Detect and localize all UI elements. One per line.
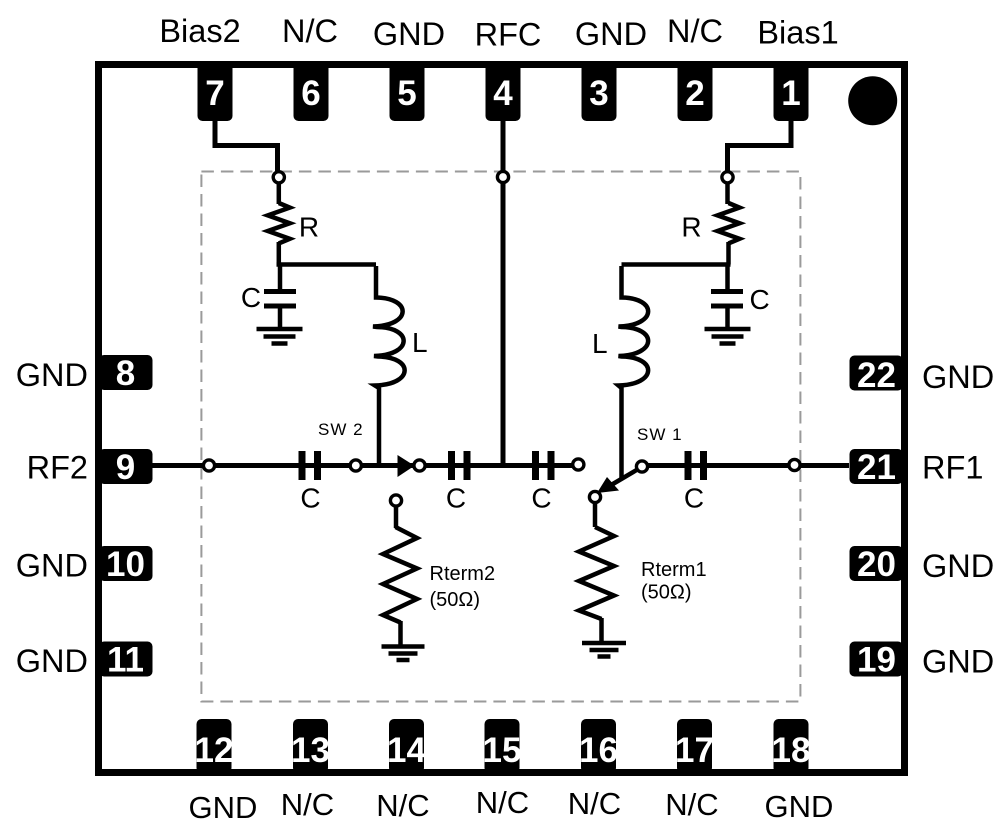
svg-text:15: 15 — [483, 731, 522, 770]
svg-text:C: C — [750, 284, 770, 315]
svg-text:Rterm1: Rterm1 — [641, 559, 707, 581]
RF line segment SW1 pivot to pin21 — [642, 463, 849, 468]
svg-text:Bias1: Bias1 — [757, 15, 838, 51]
node SW2 contact — [414, 460, 425, 471]
resistor Rterm1 — [579, 527, 614, 619]
svg-text:6: 6 — [301, 74, 320, 113]
wire junction to capacitor (right bias) — [725, 265, 730, 291]
svg-text:R: R — [681, 212, 701, 243]
pin 12 — [195, 719, 234, 773]
svg-text:L: L — [592, 328, 608, 359]
wire R to junction and to inductor (left) — [277, 242, 377, 265]
svg-text:C: C — [531, 483, 551, 514]
inductor L (right) — [619, 266, 649, 478]
ground (left bias) — [257, 329, 303, 344]
wire node to Rterm2 — [394, 506, 399, 528]
pin 18 — [772, 719, 811, 773]
wire pin1 to bias1 node — [728, 121, 792, 171]
pin 17 — [675, 719, 714, 773]
svg-text:Bias2: Bias2 — [159, 13, 240, 49]
pin 6 — [294, 63, 329, 121]
wire bias2 node to resistor — [277, 182, 282, 204]
wire capacitor to ground (right bias) — [725, 306, 730, 327]
pin 2 — [678, 63, 713, 121]
svg-text:10: 10 — [106, 545, 145, 584]
wire node to Rterm1 — [593, 503, 598, 527]
svg-text:RF2: RF2 — [27, 450, 88, 486]
svg-text:22: 22 — [857, 356, 896, 395]
SW1 arm — [612, 468, 640, 485]
node Rterm1 top — [589, 491, 600, 502]
svg-text:3: 3 — [589, 74, 608, 113]
svg-text:N/C: N/C — [665, 787, 718, 822]
svg-text:GND: GND — [189, 790, 258, 825]
svg-text:SW 1: SW 1 — [637, 425, 683, 444]
pin 20 — [850, 545, 904, 584]
svg-text:N/C: N/C — [476, 785, 529, 820]
svg-text:N/C: N/C — [281, 787, 334, 822]
node SW1 pivot — [636, 461, 647, 472]
wire Rterm1 to ground — [599, 618, 604, 641]
wire pin7 to bias2 node — [215, 121, 278, 171]
pin 3 — [582, 63, 617, 121]
svg-text:14: 14 — [387, 731, 426, 770]
pin 21 — [850, 448, 904, 487]
node RFC — [497, 171, 508, 182]
svg-text:GND: GND — [16, 643, 88, 679]
capacitor C2 — [452, 451, 468, 480]
svg-text:C: C — [241, 282, 261, 313]
wire R to junction and to inductor (right) — [622, 242, 731, 265]
ground (right bias) — [705, 329, 751, 344]
capacitor C3 — [536, 451, 552, 480]
svg-text:(50Ω): (50Ω) — [430, 589, 481, 611]
node SW1 open contact — [573, 459, 584, 470]
ground Rterm1 — [582, 643, 626, 657]
node bias1 — [722, 172, 733, 183]
pin 5 — [390, 63, 425, 121]
svg-text:GND: GND — [765, 789, 834, 824]
svg-text:4: 4 — [493, 74, 513, 113]
svg-text:1: 1 — [781, 74, 800, 113]
svg-text:RFC: RFC — [475, 17, 542, 53]
pin 10 — [99, 545, 153, 584]
pin 1 marker dot — [848, 76, 897, 125]
svg-text:N/C: N/C — [568, 786, 621, 821]
capacitor C4 (RF1 side) — [688, 451, 704, 480]
node after C1 — [350, 460, 361, 471]
SW1 arrowhead — [597, 477, 619, 493]
pin 19 — [850, 641, 904, 680]
svg-text:GND: GND — [922, 548, 994, 584]
svg-text:R: R — [299, 212, 319, 243]
svg-text:12: 12 — [195, 731, 234, 770]
svg-text:GND: GND — [922, 644, 994, 680]
node Rterm2 top — [390, 495, 401, 506]
svg-text:11: 11 — [107, 641, 144, 680]
svg-text:L: L — [412, 327, 428, 358]
resistor R (right) — [718, 203, 740, 243]
RF line segment pin9 to SW1 open contact — [152, 463, 578, 468]
svg-text:17: 17 — [675, 731, 714, 770]
svg-text:C: C — [300, 483, 320, 514]
svg-text:18: 18 — [772, 731, 811, 770]
wire junction to capacitor (left bias) — [278, 265, 283, 291]
svg-text:13: 13 — [291, 731, 330, 770]
svg-text:N/C: N/C — [376, 788, 429, 823]
resistor R (left) — [268, 203, 290, 243]
pin 7 — [198, 63, 233, 121]
SW2 arrow — [398, 455, 415, 477]
capacitor C (right bias) — [711, 292, 743, 307]
package outline — [99, 65, 905, 773]
svg-text:N/C: N/C — [667, 13, 723, 49]
wire Rterm2 to ground — [398, 621, 403, 645]
inductor L (left) — [373, 266, 405, 463]
ground Rterm2 — [382, 647, 425, 661]
svg-text:GND: GND — [16, 548, 88, 584]
svg-text:19: 19 — [857, 641, 896, 680]
pin 22 — [850, 356, 904, 396]
capacitor C (left bias) — [264, 292, 296, 307]
capacitor C1 (RF2 side) — [302, 451, 318, 480]
svg-text:RF1: RF1 — [922, 449, 983, 485]
svg-text:21: 21 — [857, 448, 896, 487]
wire bias1 node to resistor — [725, 182, 730, 204]
svg-text:5: 5 — [397, 74, 416, 113]
svg-text:GND: GND — [575, 16, 647, 52]
svg-text:GND: GND — [373, 16, 445, 52]
pin 11 — [99, 641, 153, 680]
pin 4 — [486, 63, 521, 121]
pin 16 — [579, 719, 618, 773]
svg-text:C: C — [446, 483, 466, 514]
svg-text:SW 2: SW 2 — [318, 420, 364, 439]
svg-text:Rterm2: Rterm2 — [430, 563, 496, 585]
svg-text:N/C: N/C — [282, 13, 338, 49]
wire RFC pin4 down to RF line — [501, 121, 506, 463]
node RF2 entry — [203, 460, 214, 471]
svg-text:8: 8 — [116, 354, 135, 393]
resistor Rterm2 — [383, 527, 417, 623]
svg-text:9: 9 — [116, 448, 135, 487]
pin 1 — [774, 63, 809, 121]
svg-text:20: 20 — [857, 545, 896, 584]
pin 15 — [483, 719, 522, 773]
svg-text:16: 16 — [579, 731, 618, 770]
svg-text:2: 2 — [685, 74, 704, 113]
pin 8 — [99, 354, 153, 393]
svg-text:C: C — [684, 483, 704, 514]
pin 14 — [387, 719, 426, 773]
pin 9 — [99, 448, 153, 487]
wire capacitor to ground (left bias) — [278, 306, 283, 327]
node bias2 — [273, 172, 284, 183]
node RF1 exit — [789, 459, 800, 470]
svg-text:7: 7 — [205, 74, 224, 113]
svg-text:GND: GND — [16, 357, 88, 393]
svg-text:(50Ω): (50Ω) — [641, 582, 692, 604]
pin 13 — [291, 719, 330, 773]
svg-text:GND: GND — [922, 359, 994, 395]
die outline (dashed) — [201, 172, 800, 702]
